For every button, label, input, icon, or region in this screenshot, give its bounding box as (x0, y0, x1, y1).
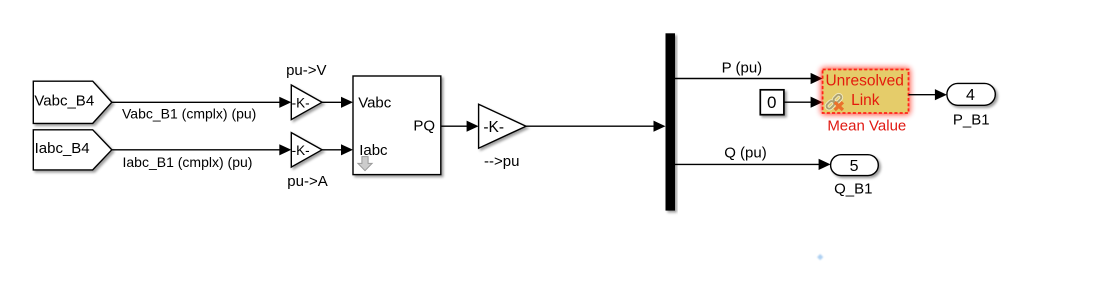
wire gain pu-to-V to subsystem (322, 97, 353, 108)
wire gain pu-to-A to subsystem (322, 144, 353, 155)
svg-text:-K-: -K- (292, 143, 310, 158)
svg-text:Q (pu): Q (pu) (724, 145, 767, 162)
demux (666, 33, 676, 210)
wire constant to Mean Value (784, 97, 823, 108)
svg-text:pu->A: pu->A (287, 173, 327, 190)
svg-text:P (pu): P (pu) (722, 59, 763, 76)
gain pu-to-A (291, 133, 322, 168)
outport 5 Q_B1 (831, 155, 879, 176)
svg-text:Vabc_B1 (cmplx) (pu): Vabc_B1 (cmplx) (pu) (122, 105, 256, 121)
unresolved link block Mean Value (821, 68, 911, 116)
svg-text:-K-: -K- (292, 96, 310, 111)
svg-text:Mean Value: Mean Value (827, 118, 906, 135)
wire Q (pu) (675, 159, 831, 170)
gain to-pu (479, 104, 526, 148)
wire P (pu) (675, 73, 823, 84)
svg-text:pu->V: pu->V (286, 62, 326, 79)
annotation marker (817, 254, 823, 260)
svg-text:PQ: PQ (413, 118, 435, 135)
svg-text:4: 4 (966, 87, 975, 104)
wire Iabc_B1 (112, 144, 291, 155)
subsystem power measurement (353, 76, 441, 175)
svg-text:-->pu: -->pu (484, 153, 519, 170)
badge gray down arrow (358, 157, 372, 171)
svg-text:Iabc_B4: Iabc_B4 (35, 140, 90, 157)
wire PQ to gain (441, 121, 479, 132)
svg-text:P_B1: P_B1 (953, 111, 990, 128)
constant 0 (760, 90, 784, 115)
svg-text:Unresolved: Unresolved (825, 72, 903, 89)
wire gain to demux (526, 121, 666, 132)
svg-text:Q_B1: Q_B1 (834, 181, 872, 198)
svg-text:Link: Link (851, 92, 880, 109)
svg-text:-K-: -K- (483, 119, 504, 136)
svg-text:5: 5 (850, 158, 859, 175)
svg-text:0: 0 (767, 93, 776, 112)
wire Mean Value to outport P_B1 (909, 89, 947, 100)
outport 4 P_B1 (947, 83, 995, 105)
svg-text:Iabc_B1 (cmplx) (pu): Iabc_B1 (cmplx) (pu) (123, 154, 253, 170)
svg-text:Vabc_B4: Vabc_B4 (34, 93, 94, 110)
gain pu-to-V (291, 85, 322, 120)
from tag Iabc_B4 (33, 130, 112, 170)
svg-text:Vabc: Vabc (358, 95, 392, 112)
from tag Vabc_B4 (33, 81, 112, 123)
wire Vabc_B1 (112, 97, 291, 108)
